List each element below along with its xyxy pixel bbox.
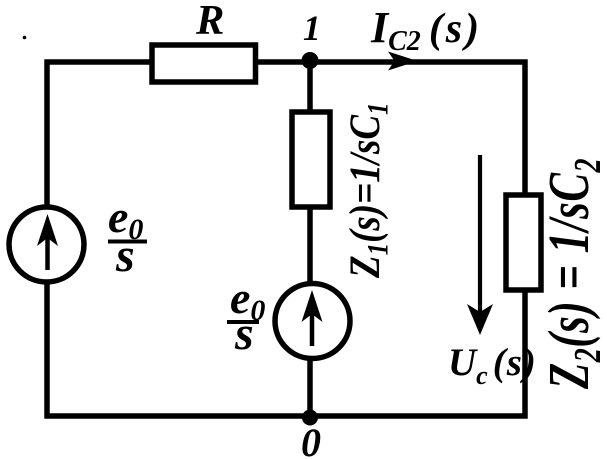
source E2 circle	[275, 284, 350, 359]
node 0 junction dot	[302, 410, 318, 426]
source E2 arrow	[302, 290, 323, 346]
svg-text:1: 1	[303, 8, 321, 48]
scan speck	[23, 36, 27, 40]
wire top-right horizontal from resistor to right corner	[255, 59, 528, 65]
wire right vertical lower	[522, 290, 528, 419]
wire right vertical upper	[522, 60, 528, 196]
resistor R	[152, 45, 256, 82]
svg-text:0: 0	[301, 420, 321, 459]
voltage arrow Uc	[467, 155, 493, 335]
wire left vertical lower	[44, 283, 50, 419]
svg-text:R: R	[195, 0, 224, 44]
svg-text:s: s	[234, 307, 254, 360]
svg-text:Uc(s): Uc(s)	[448, 341, 537, 390]
source E1 circle	[9, 207, 84, 282]
wire middle vertical source to node 0	[307, 358, 313, 418]
wire top-left horizontal	[45, 59, 153, 65]
label e0/s left	[108, 191, 147, 282]
node 1 junction dot	[302, 52, 319, 69]
wire bottom horizontal	[45, 413, 528, 419]
label e0/s middle	[227, 272, 265, 360]
impedance Z1 box	[292, 112, 330, 207]
impedance Z2 box	[506, 195, 541, 290]
current arrow head Ic2	[388, 52, 418, 71]
wire middle vertical node1 to Z1	[307, 62, 313, 112]
svg-text:s: s	[115, 229, 135, 282]
wire left vertical upper	[44, 60, 50, 208]
wire middle vertical Z1 to source	[307, 207, 313, 284]
source E1 arrow	[37, 214, 58, 270]
